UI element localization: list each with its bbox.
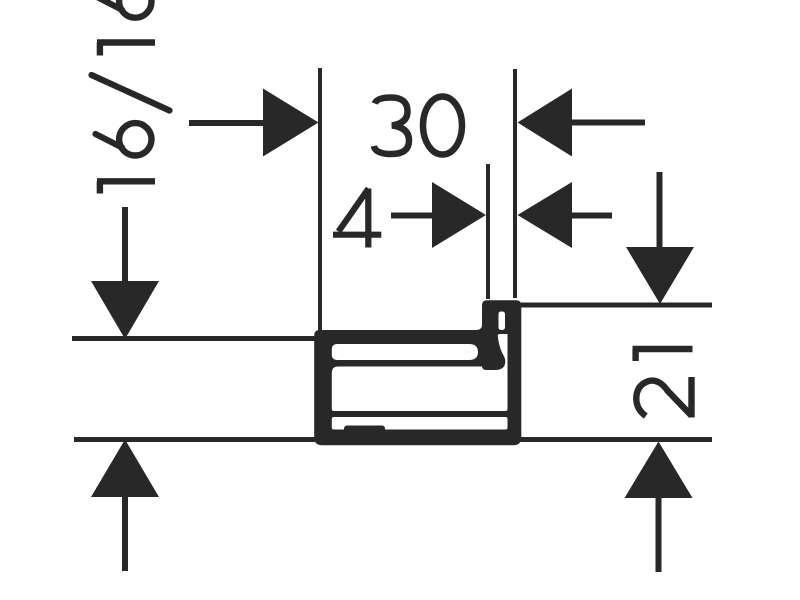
bump on bottom wall (344, 426, 385, 433)
dimension line 30 right (570, 120, 645, 126)
arrow down left (16 dim) (91, 281, 159, 339)
dimension text 16/16 rotated: slash (92, 75, 170, 111)
dimension text 16/16 rotated: digit 6 lower (96, 123, 152, 155)
reference line top-right (21 dim upper datum) (521, 303, 712, 308)
dimension text 21 rotated: digit 2 (636, 377, 691, 418)
reference line bottom (common bottom datum) (74, 437, 712, 442)
reference line top-left (16 dim upper datum) (72, 336, 317, 341)
arrow right-pointing (30 dim left) (263, 89, 319, 157)
dimension text 16/16 rotated: digit 1 lower (97, 181, 155, 193)
dimension line left upper (16 dim) (122, 207, 128, 282)
divider curled tip (482, 334, 505, 370)
arrow right-pointing (4 dim) (432, 182, 486, 248)
dimension line 4 right (570, 213, 612, 219)
lip slot hole (white) (499, 312, 506, 331)
dimension line 21 upper (657, 172, 663, 248)
inner slot lower (white) (332, 417, 508, 430)
dimension text 4 (333, 189, 381, 248)
dimension line 30 left (189, 120, 264, 126)
dimension line left lower (16 dim) (122, 496, 128, 571)
arrow left-pointing (4 dim right) (518, 182, 573, 248)
dimension line 21 lower (656, 497, 662, 572)
extension line left of 30 dim (318, 68, 322, 344)
arrow down (21 dim) (626, 247, 694, 304)
dimension text 16/16 rotated: digit 1 upper (97, 43, 155, 56)
extension line of 4 dim (486, 164, 490, 299)
comma gap right of divider tip (white) (498, 334, 508, 368)
inner cavity main (white) (332, 367, 508, 412)
dimension text 30 digit 0 (423, 97, 462, 155)
arrow up left (16 dim) (91, 440, 159, 498)
extension line right of 30 dim (513, 69, 517, 298)
arrow up (21 dim) (625, 442, 693, 499)
arrow left-pointing (30 dim right) (518, 89, 573, 157)
dimension text 16/16 rotated: digit 6 upper (cut off by top edge) (96, 0, 152, 18)
dimension text 21 rotated: digit 1 (633, 349, 693, 361)
inner slot upper (white) (332, 344, 478, 360)
profile outer shell with hook lip (314, 300, 521, 445)
dimension line 4 left (391, 213, 434, 219)
dimension text 30 digit 3 (374, 98, 409, 155)
